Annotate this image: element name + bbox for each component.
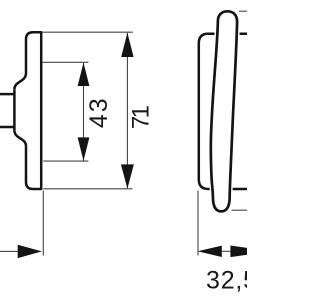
side view: neck bottom edge <box>0 126 14 129</box>
lower-left cropped dimension: extension line <box>42 191 44 256</box>
dimension 43: top extension line <box>42 61 88 63</box>
svg-text:32,5: 32,5 <box>206 266 247 294</box>
dimension 71: lower arrowhead <box>121 164 134 188</box>
front view: handle grip outline (white casing) <box>211 11 237 211</box>
dimension 43: dimension line <box>83 63 85 161</box>
dimension 32,5: extension line <box>197 191 199 256</box>
front view: grip tip extension line <box>232 209 248 211</box>
front view: handle grip outline <box>211 11 237 211</box>
front view: rosette plate outline <box>199 34 260 189</box>
dimension 71: top extension line <box>43 31 133 33</box>
svg-text:71: 71 <box>127 105 154 129</box>
side view: neck top edge <box>0 93 14 96</box>
side view: handle body outline <box>14 32 41 189</box>
dimension 43: lower arrowhead <box>78 137 90 160</box>
dimension 43: upper arrowhead <box>78 63 90 86</box>
dimension 32,5: left arrowhead <box>198 246 222 257</box>
dimension 71: upper arrowhead <box>121 33 133 57</box>
dimension 32,5: right arrowhead (cropped) <box>230 246 272 258</box>
lower-left cropped dimension: arrowhead <box>18 245 42 258</box>
svg-text:43: 43 <box>85 96 113 128</box>
lower-left cropped dimension: dimension line <box>0 250 41 252</box>
side view: neck junction line <box>13 89 16 130</box>
front view: top extension line <box>239 10 247 12</box>
dimension 71: bottom extension line <box>43 188 132 190</box>
dimension 71: dimension line <box>126 33 128 188</box>
dimension 43: bottom extension line <box>43 160 88 162</box>
dimension 32,5: dimension line <box>222 250 231 252</box>
